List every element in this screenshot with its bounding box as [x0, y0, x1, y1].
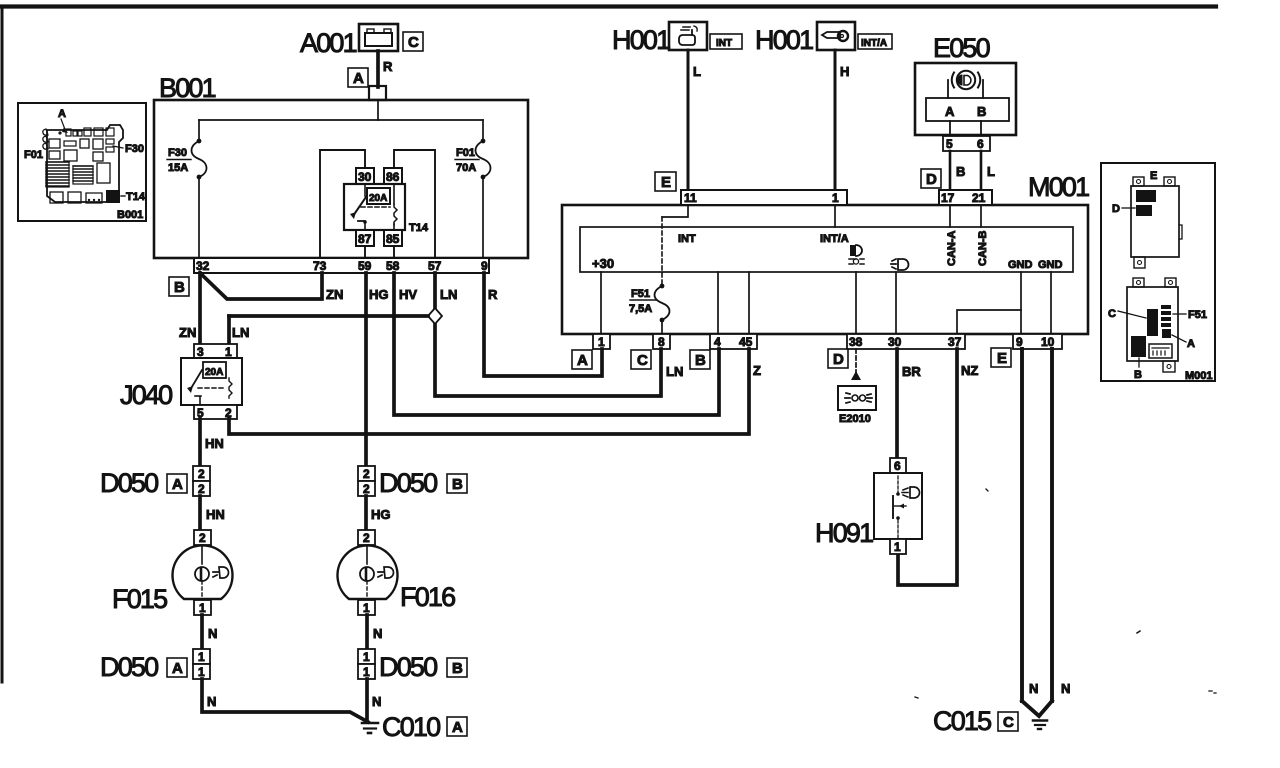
svg-text:C: C	[1003, 714, 1014, 731]
svg-text:3: 3	[197, 345, 204, 359]
svg-text:D050: D050	[379, 652, 437, 682]
node C (M001)	[631, 350, 651, 369]
svg-text:HG: HG	[369, 287, 389, 302]
wire pin 37 to GND node	[957, 310, 1021, 335]
wire N F016 to D050	[367, 615, 382, 649]
svg-text:B: B	[977, 104, 986, 119]
svg-text:ZN: ZN	[179, 325, 196, 340]
svg-text:C: C	[1108, 308, 1116, 320]
svg-text:37: 37	[948, 335, 962, 349]
relay J040	[120, 344, 242, 420]
control unit M001	[562, 172, 1089, 334]
fog lamp F016	[338, 530, 456, 615]
svg-text:20A: 20A	[369, 193, 387, 204]
svg-text:A: A	[172, 660, 183, 677]
svg-text:B001: B001	[159, 73, 216, 103]
svg-text:N: N	[372, 694, 381, 709]
svg-text:A: A	[452, 719, 463, 736]
svg-text:D: D	[1112, 203, 1120, 215]
svg-text:N: N	[208, 626, 217, 641]
battery A001	[300, 24, 398, 58]
svg-text:1: 1	[832, 191, 839, 205]
dashed link M001 pin 38 to E2010	[851, 349, 861, 380]
svg-text:1: 1	[225, 345, 232, 359]
wire BR M001 pin 30 to H091	[897, 349, 921, 458]
svg-text:2: 2	[198, 467, 205, 481]
wire relay 30 to pin 73	[320, 150, 365, 258]
connector M001 pins 38 30 37	[847, 334, 965, 349]
svg-text:A: A	[1187, 338, 1195, 350]
connector M001 pins 4 45	[710, 334, 757, 349]
fuse box B001	[154, 73, 528, 258]
svg-text:11: 11	[684, 191, 697, 205]
connector M001 pin 8	[653, 334, 670, 349]
wire R battery to B001	[378, 51, 393, 87]
indicator lamp icon M001	[849, 245, 864, 264]
wire L H001 to M001 pin 11	[688, 50, 701, 190]
svg-text:D050: D050	[379, 468, 437, 498]
svg-text:INT: INT	[678, 233, 696, 245]
svg-text:2: 2	[199, 531, 206, 545]
svg-text:T14: T14	[409, 222, 429, 234]
connector strip M001 pins 11 1	[681, 190, 847, 205]
svg-text:57: 57	[428, 259, 442, 273]
svg-text:N: N	[373, 626, 382, 641]
svg-text:A: A	[945, 104, 955, 119]
svg-text:D050: D050	[100, 468, 158, 498]
interior light switch H001 INT	[612, 22, 707, 55]
wire N F016 to ground	[367, 679, 381, 722]
wire ZN pin 32 to J040 pin 3	[179, 273, 200, 344]
svg-text:+30: +30	[592, 256, 614, 271]
svg-text:38: 38	[849, 335, 863, 349]
wire internal B001 bus	[199, 100, 483, 141]
svg-text:HN: HN	[205, 436, 224, 451]
wire M001 pin 21 CAN-B	[980, 205, 982, 227]
wire H H001 to M001 pin 1	[835, 50, 849, 190]
node B (M001)	[690, 350, 710, 369]
wire to pin 38	[855, 272, 857, 335]
wire N M001 pin 10 to ground	[1050, 349, 1054, 701]
svg-text:1: 1	[363, 601, 370, 615]
svg-text:E2010: E2010	[839, 413, 871, 425]
fog lamp F015	[112, 530, 233, 615]
wire to pin 45	[748, 272, 750, 335]
svg-text:70A: 70A	[456, 162, 476, 174]
wire R pin 9 to M001 pin 1	[484, 273, 602, 376]
svg-text:CAN-A: CAN-A	[946, 231, 958, 266]
svg-text:CAN-B: CAN-B	[977, 231, 989, 266]
svg-text:85: 85	[386, 232, 400, 246]
wire LN pin 57 to M001 pin 8	[435, 273, 683, 396]
svg-text:B: B	[452, 476, 463, 493]
svg-text:R: R	[383, 59, 393, 74]
svg-text:J040: J040	[120, 380, 172, 410]
connector D050 A upper	[100, 466, 210, 498]
svg-text:M001: M001	[1185, 370, 1213, 382]
svg-text:1: 1	[198, 665, 205, 679]
svg-text:9: 9	[481, 259, 488, 273]
node D (M001 connector)	[921, 169, 941, 188]
fuse F30 15A	[167, 139, 207, 258]
node E (M001 bottom)	[991, 348, 1011, 367]
svg-text:LN: LN	[666, 364, 683, 379]
svg-text:D: D	[926, 171, 937, 188]
svg-text:INT: INT	[716, 38, 732, 49]
connector code C (A001)	[403, 32, 423, 51]
svg-text:T14: T14	[126, 191, 146, 203]
svg-text:10: 10	[1041, 335, 1055, 349]
svg-text:HV: HV	[399, 287, 417, 302]
node D (M001 bottom)	[828, 349, 848, 368]
svg-text:1: 1	[199, 601, 206, 615]
svg-text:1: 1	[363, 650, 370, 664]
svg-text:F015: F015	[112, 584, 167, 614]
svg-text:1: 1	[363, 665, 370, 679]
svg-text:5: 5	[946, 137, 953, 151]
svg-text:17: 17	[941, 191, 955, 205]
wire M001 pin 11 to INT via F51	[662, 205, 688, 285]
svg-text:59: 59	[358, 259, 372, 273]
connector M001 pin 1	[593, 334, 610, 349]
wire B E050 to M001 pin 17	[950, 151, 965, 190]
connector D050 B lower	[358, 649, 467, 682]
svg-text:D050: D050	[100, 652, 158, 682]
M001 internal block	[580, 227, 1073, 272]
svg-text:R: R	[488, 287, 498, 302]
svg-text:1: 1	[598, 335, 605, 349]
node E (M001 connector top)	[655, 172, 676, 191]
wire HG D050 to F016	[366, 496, 391, 530]
svg-text:87: 87	[358, 232, 372, 246]
wire GND to pin 10	[1050, 272, 1052, 335]
wire relay 87 to pin 59	[364, 246, 366, 258]
svg-text:HN: HN	[206, 507, 225, 522]
svg-text:F30: F30	[168, 147, 187, 159]
connector D050 B upper	[358, 466, 467, 498]
connector strip E050 pins 5 6	[943, 136, 990, 151]
wire to pin 4	[717, 272, 719, 335]
svg-text:2: 2	[198, 482, 205, 496]
inset B001 fuse box location view	[18, 103, 146, 221]
svg-text:A: A	[172, 476, 183, 493]
svg-text:H091: H091	[815, 518, 873, 548]
svg-text:73: 73	[313, 259, 327, 273]
wire HN J040 pin 5 to D050	[200, 419, 224, 466]
wire L E050 to M001 pin 21	[981, 151, 995, 190]
wire NZ M001 pin 37 to H091 pin 1	[898, 349, 978, 585]
svg-text:H001: H001	[755, 25, 813, 55]
svg-text:30: 30	[358, 170, 372, 184]
wire E050 A to pin 5	[949, 121, 951, 136]
svg-text:A: A	[58, 108, 66, 120]
wire HN D050 to F015	[200, 496, 225, 530]
connector strip M001 pins 17 21	[939, 190, 992, 205]
wire relay 85 to pin 58	[393, 246, 395, 258]
svg-text:Z: Z	[753, 363, 761, 378]
svg-text:N: N	[207, 694, 216, 709]
svg-text:F30: F30	[125, 143, 144, 155]
svg-text:INT/A: INT/A	[861, 38, 887, 49]
svg-text:GND: GND	[1008, 259, 1033, 271]
fuse F01 70A	[455, 139, 491, 258]
svg-text:20A: 20A	[205, 367, 223, 378]
wire HG pin 59 to D050	[366, 273, 389, 466]
svg-text:F51: F51	[631, 288, 650, 300]
wire M001 pin 1 to INT/A	[834, 205, 836, 227]
buzzer E050	[915, 33, 1016, 135]
wire to pin 30	[895, 272, 897, 335]
svg-text:2: 2	[363, 467, 370, 481]
net label INT/A	[858, 34, 892, 49]
svg-text:E: E	[997, 350, 1007, 367]
svg-text:45: 45	[739, 335, 753, 349]
svg-text:2: 2	[363, 482, 370, 496]
svg-text:N: N	[1061, 681, 1070, 696]
svg-text:15A: 15A	[168, 162, 188, 174]
svg-text:1: 1	[198, 650, 205, 664]
svg-text:M001: M001	[1028, 172, 1089, 202]
svg-text:B: B	[452, 660, 463, 677]
svg-text:L: L	[693, 64, 701, 79]
svg-text:C: C	[408, 34, 419, 51]
node A (M001)	[572, 350, 592, 369]
svg-text:A: A	[353, 70, 364, 87]
svg-text:2: 2	[363, 531, 370, 545]
svg-text:INT/A: INT/A	[820, 233, 849, 245]
svg-text:BR: BR	[902, 364, 921, 379]
connector M001 pins 9 10	[1013, 334, 1062, 349]
wire Z J040 pin 2 to M001 pin 45	[229, 349, 761, 434]
svg-text:N: N	[1029, 681, 1038, 696]
svg-text:6: 6	[894, 459, 901, 473]
wire M001 pin 17 CAN-A	[949, 205, 951, 227]
svg-text:21: 21	[972, 191, 986, 205]
svg-text:A001: A001	[300, 28, 357, 58]
svg-text:8: 8	[658, 335, 665, 349]
ignition switch H001 INT/A	[755, 22, 855, 55]
wire GND to pin 9	[1020, 272, 1022, 335]
svg-text:32: 32	[196, 259, 210, 273]
svg-text:F01: F01	[456, 147, 475, 159]
svg-text:LN: LN	[232, 325, 249, 340]
inset M001 module location view	[1101, 163, 1215, 382]
svg-text:7,5A: 7,5A	[629, 303, 652, 315]
relay T14	[344, 168, 429, 246]
svg-text:B: B	[1134, 369, 1142, 381]
wire HV pin 58 to M001 pin 4	[394, 273, 719, 415]
svg-text:1: 1	[894, 540, 901, 554]
wire E050 B to pin 6	[980, 121, 982, 136]
svg-text:NZ: NZ	[961, 363, 978, 378]
wire +30 to pin 1	[600, 272, 602, 335]
svg-text:H001: H001	[612, 25, 670, 55]
svg-text:4: 4	[714, 335, 721, 349]
node B (B001 connector)	[169, 277, 189, 296]
svg-text:6: 6	[977, 137, 984, 151]
svg-text:E: E	[1150, 170, 1157, 182]
svg-text:ZN: ZN	[326, 287, 343, 302]
svg-text:C015: C015	[933, 706, 991, 736]
svg-text:A: A	[577, 352, 588, 369]
svg-text:L: L	[987, 164, 995, 179]
svg-text:B: B	[695, 352, 706, 369]
svg-text:B001: B001	[117, 209, 143, 221]
svg-text:LN: LN	[440, 287, 457, 302]
fuse F51 7,5A	[629, 284, 670, 335]
svg-text:D: D	[833, 351, 844, 368]
svg-text:F01: F01	[24, 149, 43, 161]
connector strip B001 pins 32 73 59 58 57 9	[194, 258, 489, 273]
svg-text:B: B	[174, 279, 185, 296]
connector D050 A lower	[100, 649, 210, 682]
svg-text:GND: GND	[1038, 259, 1063, 271]
wire relay 86 to pin 57	[394, 150, 435, 258]
net label INT	[710, 34, 742, 49]
fog lamp switch H091	[815, 458, 922, 554]
wire N F015 branch to ground C010	[202, 679, 368, 722]
junction diamond LN	[428, 308, 442, 324]
svg-text:30: 30	[888, 335, 902, 349]
svg-text:H: H	[840, 64, 849, 79]
fog lamp icon M001	[891, 259, 909, 270]
wire N F015 to D050	[202, 615, 217, 649]
ground C010 A	[362, 712, 467, 742]
svg-text:58: 58	[386, 259, 400, 273]
svg-text:E: E	[661, 174, 671, 191]
wire N M001 pin 9 to ground	[1020, 349, 1024, 701]
svg-text:86: 86	[386, 170, 400, 184]
svg-text:F016: F016	[400, 582, 455, 612]
svg-text:F51: F51	[1188, 309, 1207, 321]
telltale E2010	[838, 386, 876, 425]
svg-text:C: C	[637, 352, 648, 369]
wire LN junction to J040 pin 1	[229, 316, 428, 344]
svg-text:B: B	[956, 164, 965, 179]
svg-text:9: 9	[1016, 335, 1023, 349]
node A (B001 connector)	[348, 68, 386, 100]
svg-text:E050: E050	[933, 33, 990, 63]
ground C015 C	[933, 701, 1052, 736]
svg-text:HG: HG	[371, 507, 391, 522]
svg-text:C010: C010	[382, 712, 440, 742]
wire ZN pin 32 to pin 73	[200, 273, 343, 302]
